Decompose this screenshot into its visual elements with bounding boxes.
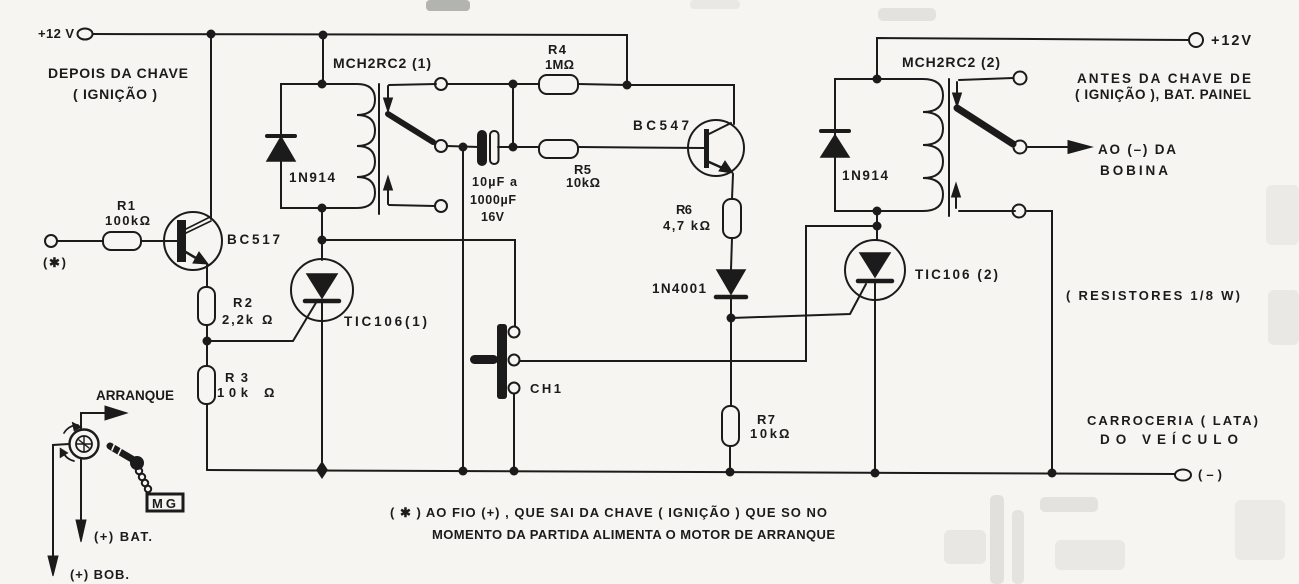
svg-text:Ω: Ω xyxy=(264,385,274,400)
resistor R5 xyxy=(539,140,578,158)
junction cap-node wire on rail xyxy=(459,467,468,476)
svg-text:CARROCERIA ( LATA): CARROCERIA ( LATA) xyxy=(1087,413,1258,428)
junction relay1 coil bottom xyxy=(318,204,327,213)
relay U3 top arrow xyxy=(956,82,958,93)
wire capacitor to R5 xyxy=(498,146,539,148)
svg-text:(+) BAT.: (+) BAT. xyxy=(94,529,152,544)
wire relay1 bottom node to CH1 top xyxy=(322,240,515,327)
relay U3 coil xyxy=(923,79,943,211)
relay U1 core xyxy=(378,84,380,214)
svg-text:16V: 16V xyxy=(481,210,505,224)
relay U1 top contact xyxy=(435,78,447,90)
junction R7 on rail xyxy=(726,468,735,477)
svg-text:(–): (–) xyxy=(1198,467,1222,482)
wire CH1 middle to relay2 node xyxy=(520,226,877,361)
resistor R1 xyxy=(103,232,141,250)
wire left +12V rail xyxy=(92,34,627,85)
wire input to R1 xyxy=(57,240,103,242)
arrow to ARRANQUE xyxy=(81,413,108,430)
svg-text:1MΩ: 1MΩ xyxy=(545,57,574,72)
wire relay U1 top contact to R4 xyxy=(447,83,539,85)
wire relay2 bottom to SCR2 anode xyxy=(876,211,878,240)
svg-text:R1: R1 xyxy=(117,198,135,213)
SCR U4 TIC106(2) xyxy=(845,240,905,300)
svg-text:1N914: 1N914 xyxy=(842,168,888,183)
svg-text:ARRANQUE: ARRANQUE xyxy=(96,388,174,403)
svg-text:10k: 10k xyxy=(217,385,249,400)
terminal +12V right xyxy=(1189,33,1203,47)
wire SCR1 cathode to ground rail xyxy=(321,303,323,470)
relay U1 bottom contact xyxy=(435,200,447,212)
junction relay1 coil top xyxy=(318,80,327,89)
junction rail/BC517-collector xyxy=(207,30,216,39)
svg-text:2,2k: 2,2k xyxy=(222,312,254,327)
svg-text:Ω: Ω xyxy=(262,312,272,327)
wire R2 to node xyxy=(206,325,208,341)
relay U1 top arrow xyxy=(387,86,389,98)
svg-text:BC517: BC517 xyxy=(227,232,280,247)
relay U3 top contact xyxy=(1014,72,1027,85)
wire node to BC547 collector xyxy=(627,85,734,124)
key with chain xyxy=(110,443,151,492)
relay U1 bottom arrow xyxy=(387,190,389,204)
junction rail/relay1-coil xyxy=(319,31,328,40)
junction SCR2 anode node xyxy=(873,222,882,231)
wire relay U1 top contact stub xyxy=(389,84,436,85)
svg-text:ANTES DA CHAVE DE: ANTES DA CHAVE DE xyxy=(1077,71,1251,86)
wire SCR2 gate xyxy=(731,284,866,318)
junction CH1 wire on rail xyxy=(510,467,519,476)
svg-text:R6: R6 xyxy=(676,202,692,217)
SCR U2 TIC106(1) xyxy=(291,259,353,321)
junction relay2 contact wire on rail xyxy=(1048,469,1057,478)
resistor R6 xyxy=(723,199,741,238)
resistor R4 xyxy=(539,75,578,94)
arrow AO (-) DA BOBINA xyxy=(1028,146,1070,148)
wire to (+) BAT. xyxy=(80,459,82,522)
wire pole to capacitor xyxy=(447,146,479,147)
wire relay U1 bottom contact stub xyxy=(389,205,435,206)
wire R4 node down to cap node xyxy=(512,84,514,147)
wire CH1 bottom to ground rail xyxy=(513,394,515,470)
relay U1 pole contact xyxy=(435,140,447,152)
relay U1 blade xyxy=(388,114,433,142)
wire R3 to ground rail xyxy=(206,404,208,470)
junction capacitor/R5 node xyxy=(509,143,518,152)
wire relay U3 top contact stub xyxy=(959,78,1013,80)
svg-text:1000µF: 1000µF xyxy=(470,193,516,207)
svg-text:10k: 10k xyxy=(750,426,778,441)
svg-text:TIC106 (2): TIC106 (2) xyxy=(915,267,998,282)
wire BC547 emitter to R6 xyxy=(732,174,733,199)
relay U1 coil xyxy=(357,84,375,208)
junction relay2 coil top xyxy=(873,75,882,84)
svg-text:TIC106(1): TIC106(1) xyxy=(344,314,427,329)
ground rail carroceria xyxy=(207,470,1175,474)
wire relay U3 bottom contact to rail xyxy=(1027,211,1052,472)
svg-text:4,7 kΩ: 4,7 kΩ xyxy=(663,218,710,233)
relay U3 pole contact xyxy=(1014,141,1027,154)
relay U3 bottom arrow xyxy=(955,197,957,208)
junction relay2 coil bottom xyxy=(873,207,882,216)
relay U3 MCH2RC2(2) box xyxy=(835,79,923,211)
svg-text:( IGNIÇÃO ), BAT. PAINEL: ( IGNIÇÃO ), BAT. PAINEL xyxy=(1075,87,1251,102)
wire to (+) BOB. xyxy=(53,444,69,560)
transistor Q2 BC547 xyxy=(688,120,744,176)
svg-text:R4: R4 xyxy=(548,42,567,57)
svg-text:1N4001: 1N4001 xyxy=(652,281,706,296)
relay U3 blade xyxy=(957,108,1013,144)
svg-text:(+) BOB.: (+) BOB. xyxy=(70,567,129,582)
svg-text:100kΩ: 100kΩ xyxy=(105,213,150,228)
svg-text:+12V: +12V xyxy=(1211,33,1251,49)
svg-text:1N914: 1N914 xyxy=(289,170,335,185)
wire cap node down to rail xyxy=(462,147,464,470)
svg-text:10kΩ: 10kΩ xyxy=(566,175,600,190)
relay U1 MCH2RC2(1) box xyxy=(281,84,356,208)
terminal (-) xyxy=(1175,470,1191,481)
rotation arrow bottom xyxy=(63,452,74,461)
rotation arrow top xyxy=(64,425,78,433)
terminal (*) input xyxy=(45,235,57,247)
diode D4 1N914 xyxy=(834,158,836,179)
junction SCR1 cathode on rail xyxy=(316,461,328,479)
diode D1 1N914 xyxy=(280,160,282,184)
svg-text:CH1: CH1 xyxy=(530,381,561,396)
MG tag xyxy=(147,494,183,511)
wire R7 to ground rail xyxy=(729,446,731,471)
diode D3 1N4001 xyxy=(717,270,745,294)
wire relay U3 bottom contact stub xyxy=(959,210,1015,212)
svg-text:Ω: Ω xyxy=(779,426,789,441)
wire right +12V rail xyxy=(877,38,1189,79)
svg-text:DEPOIS DA CHAVE: DEPOIS DA CHAVE xyxy=(48,65,188,81)
wire R5 to BC547 base xyxy=(578,147,704,148)
wire SCR2 cathode to rail xyxy=(874,283,876,472)
relay U3 core xyxy=(948,79,950,216)
svg-text:MOMENTO DA PARTIDA ALIMENTA: MOMENTO DA PARTIDA ALIMENTA O MOTOR DE A… xyxy=(432,527,835,542)
svg-text:+12 V: +12 V xyxy=(38,26,74,41)
resistor R7 xyxy=(722,406,739,446)
wire BC517 emitter to R2 xyxy=(206,265,208,287)
junction SCR1 anode node xyxy=(318,236,327,245)
wire gate node down to R7 xyxy=(730,318,732,406)
junction R4 right node xyxy=(623,81,632,90)
wire relay1 coil feed xyxy=(322,35,324,84)
svg-text:MCH2RC2 (1): MCH2RC2 (1) xyxy=(333,55,431,71)
junction pole/capacitor node xyxy=(459,143,468,152)
pushbutton CH1 xyxy=(497,324,507,399)
junction D3/R7/SCR2-gate node xyxy=(727,314,736,323)
transistor Q1 BC517 xyxy=(164,212,222,270)
svg-text:BC547: BC547 xyxy=(633,118,689,133)
svg-text:( IGNIÇÃO ): ( IGNIÇÃO ) xyxy=(73,85,157,102)
svg-text:10µF a: 10µF a xyxy=(472,175,518,189)
wire relay1 bottom to SCR1 anode xyxy=(321,208,323,260)
terminal +12V left xyxy=(78,29,93,40)
resistor R2 xyxy=(198,287,215,325)
capacitor C1 xyxy=(477,130,487,166)
junction R4 left node xyxy=(509,80,518,89)
wire SCR1 gate xyxy=(207,301,317,341)
relay U3 bottom contact xyxy=(1013,205,1026,218)
svg-text:R7: R7 xyxy=(757,412,775,427)
svg-text:MCH2RC2 (2): MCH2RC2 (2) xyxy=(902,54,1000,70)
wire node to R3 xyxy=(206,341,208,366)
wire R6 to D3 xyxy=(731,238,732,269)
svg-text:(✱): (✱) xyxy=(43,255,66,270)
resistor R3 xyxy=(198,366,215,404)
ignition key cylinder xyxy=(70,430,99,459)
wire R4 to +12 corner xyxy=(578,84,627,85)
wire R1 to BC517 base xyxy=(141,240,178,242)
wire BC517 collector feed xyxy=(210,34,212,219)
svg-text:( ✱ ) AO FIO (+) , QUE SAI: ( ✱ ) AO FIO (+) , QUE SAI DA CHAVE ( IG… xyxy=(390,505,827,520)
junction R2/R3/SCR1-gate node xyxy=(203,337,212,346)
wire D3 to gate node xyxy=(730,299,732,318)
junction SCR2 cathode on rail xyxy=(871,469,880,478)
